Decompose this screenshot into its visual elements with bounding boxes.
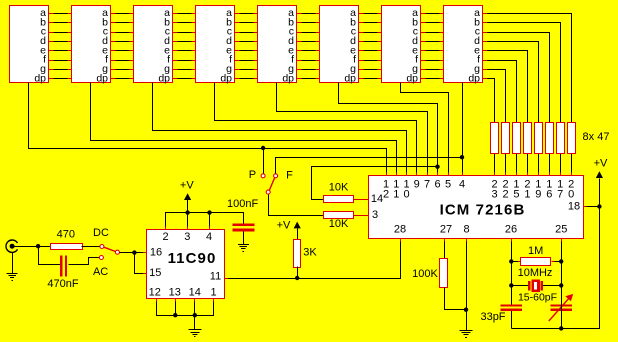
wire junction to R1 bbox=[38, 246, 50, 248]
wire 10K R2 to ICM pin 6 line bbox=[312, 167, 438, 200]
resistor R2 10K (pin14) bbox=[324, 196, 354, 203]
svg-text:16: 16 bbox=[150, 246, 162, 258]
svg-text:dp: dp bbox=[282, 72, 294, 84]
wire P contact to DISP1 digit wire bbox=[263, 148, 265, 174]
svg-text:10K: 10K bbox=[329, 218, 349, 230]
red stub pin15 bbox=[143, 273, 147, 275]
svg-text:9: 9 bbox=[414, 178, 420, 190]
junction pin8 / 100K bbox=[464, 308, 468, 312]
wire R2 to ICM pin 14 bbox=[353, 199, 368, 201]
switch S1 lever bbox=[104, 247, 116, 251]
svg-text:5: 5 bbox=[445, 178, 451, 190]
wire 1M right bbox=[551, 261, 561, 263]
junction input node bbox=[36, 244, 40, 248]
wire 1M left bbox=[511, 261, 521, 263]
svg-text:3: 3 bbox=[492, 188, 498, 200]
wire ICM pin 25 down bbox=[561, 239, 563, 305]
segment bus wires between DISP7 and DISP8 bbox=[420, 14, 443, 79]
svg-text:7: 7 bbox=[557, 188, 563, 200]
switch S2 lever bbox=[269, 178, 274, 191]
svg-text:3: 3 bbox=[184, 231, 190, 243]
junction gnd bus pin13 bbox=[173, 313, 177, 317]
junction 1M left bbox=[509, 259, 513, 263]
display DISP6 bbox=[320, 6, 359, 83]
resistor network RN1 8x 47 bbox=[491, 123, 576, 154]
wire R4 bottom bbox=[297, 267, 299, 278]
switch S2 common contact bbox=[266, 190, 270, 194]
segment bus wires between DISP4 and DISP5 bbox=[234, 14, 257, 79]
wire C1 to AC contact bbox=[69, 258, 100, 265]
svg-text:ICM 7216B: ICM 7216B bbox=[440, 202, 526, 219]
svg-text:14: 14 bbox=[371, 193, 383, 205]
svg-text:DC: DC bbox=[93, 227, 109, 239]
wire C3 bottom bbox=[511, 311, 513, 328]
display DISP5 segment pin labels a-dp bbox=[282, 7, 294, 84]
svg-text:1: 1 bbox=[393, 188, 399, 200]
svg-text:27: 27 bbox=[440, 224, 452, 236]
svg-text:11C90: 11C90 bbox=[168, 250, 217, 267]
svg-text:+V: +V bbox=[277, 219, 291, 231]
segment bus wires between DISP1 and DISP2 bbox=[48, 14, 71, 79]
wire S2 common to 10K R3 bbox=[269, 195, 324, 216]
display DISP2 bbox=[72, 6, 111, 83]
svg-text:3K: 3K bbox=[303, 246, 317, 258]
wire R5 to pin8 ground bbox=[445, 288, 467, 310]
+V arrow right bbox=[596, 171, 603, 178]
ICM digit pins 12 11 10 9 7 6 5 4 labels bbox=[383, 178, 465, 200]
display DISP3 bbox=[134, 6, 173, 83]
svg-text:5: 5 bbox=[513, 188, 519, 200]
svg-text:AC: AC bbox=[93, 266, 108, 278]
ground C2 bbox=[238, 231, 249, 251]
svg-text:4: 4 bbox=[459, 178, 465, 190]
svg-text:18: 18 bbox=[568, 201, 580, 213]
display DISP6 segment pin labels a-dp bbox=[344, 7, 356, 84]
wires resistor network to ICM segment pins bbox=[495, 154, 572, 175]
svg-text:6: 6 bbox=[546, 188, 552, 200]
svg-text:6: 6 bbox=[434, 178, 440, 190]
segment bus wires between DISP2 and DISP3 bbox=[110, 14, 133, 79]
svg-text:1M: 1M bbox=[528, 245, 543, 257]
capacitor C3 33pF bbox=[500, 304, 522, 311]
junction F wire on pin 4 line bbox=[460, 155, 464, 159]
svg-text:2: 2 bbox=[162, 231, 168, 243]
display DISP3 segment pin labels a-dp bbox=[158, 7, 170, 84]
segment bus wires between DISP5 and DISP6 bbox=[296, 14, 319, 79]
junction crystal left bbox=[509, 283, 513, 287]
svg-text:15-60pF: 15-60pF bbox=[518, 292, 557, 304]
svg-text:3: 3 bbox=[372, 209, 378, 221]
svg-text:12: 12 bbox=[149, 286, 161, 298]
svg-text:100K: 100K bbox=[412, 268, 438, 280]
segment bus wires between DISP6 and DISP7 bbox=[358, 14, 381, 79]
svg-text:+V: +V bbox=[594, 158, 608, 170]
wire C4 top bbox=[561, 304, 563, 311]
junction pin18 +V bbox=[597, 204, 601, 208]
resistor R1 470 bbox=[51, 244, 83, 250]
IC U2 11C90 body bbox=[147, 230, 225, 299]
display DISP8 segment pin labels a-dp bbox=[468, 7, 480, 84]
switch S2 contact P bbox=[261, 174, 265, 178]
svg-text:8: 8 bbox=[463, 224, 469, 236]
wire ICM pin 27 to R5 bbox=[444, 239, 446, 259]
svg-text:9: 9 bbox=[535, 188, 541, 200]
junction gnd bus pin14 bbox=[193, 313, 197, 317]
svg-text:14: 14 bbox=[189, 286, 201, 298]
wires 11C90 pins 12,13,14,1 to ground bus bbox=[157, 299, 214, 316]
svg-text:8x 47: 8x 47 bbox=[583, 131, 610, 143]
svg-text:100nF: 100nF bbox=[227, 198, 258, 210]
display DISP4 bbox=[196, 6, 235, 83]
wires 11C90 pins 2,3,4 to +V bus bbox=[166, 213, 244, 230]
display DISP8 bbox=[444, 6, 483, 83]
switch S1 contact AC bbox=[99, 256, 103, 260]
ground ICM pin 8 bbox=[460, 330, 473, 332]
svg-text:11: 11 bbox=[210, 271, 221, 283]
svg-text:28: 28 bbox=[394, 224, 406, 236]
junction on DISP1 digit wire above P bbox=[261, 146, 265, 150]
+V arrow above R4 bbox=[294, 222, 301, 229]
junction bus pin4 bbox=[207, 210, 211, 214]
svg-text:dp: dp bbox=[96, 72, 108, 84]
svg-text:+V: +V bbox=[180, 179, 194, 191]
resistor R3 10K (pin3) bbox=[324, 212, 354, 219]
capacitor C1 470nF bbox=[60, 256, 67, 277]
svg-text:13: 13 bbox=[169, 286, 181, 298]
wire ICM pin 26 down bbox=[511, 239, 513, 305]
input connector J1 bbox=[6, 240, 18, 252]
wire C4 bottom bbox=[561, 311, 563, 328]
ICM segment pins 23 22 15 21 19 16 17 20 labels bbox=[492, 178, 575, 200]
display DISP4 segment pin labels a-dp bbox=[220, 7, 232, 84]
wire ICM pin 8 down bbox=[466, 239, 468, 330]
IC U1 ICM 7216B body bbox=[369, 176, 584, 239]
svg-text:2: 2 bbox=[383, 188, 389, 200]
svg-text:0: 0 bbox=[403, 188, 409, 200]
trimmer capacitor C4 15-60pF bbox=[549, 294, 573, 321]
wire to 11C90 pin 15 bbox=[135, 253, 147, 274]
junction bus pin3 bbox=[185, 210, 189, 214]
ground J1 bbox=[7, 252, 18, 280]
wire 11C90 pin 11 to ICM pin 28 bbox=[225, 239, 401, 279]
resistor R6 1M bbox=[521, 258, 551, 266]
svg-text:10K: 10K bbox=[329, 181, 349, 193]
segment wires from DISP8 to resistor network bbox=[482, 14, 572, 123]
junction crystal right bbox=[559, 283, 563, 287]
wire R4 top to +V bbox=[297, 228, 299, 239]
wire R3 to ICM pin 3 bbox=[353, 215, 368, 217]
svg-text:dp: dp bbox=[344, 72, 356, 84]
switch S2 contact F bbox=[274, 174, 278, 178]
svg-text:dp: dp bbox=[406, 72, 418, 84]
+V arrow above 11C90 pin 3 bbox=[184, 193, 191, 212]
junction S1 wire bbox=[132, 250, 136, 254]
switch S1 contact DC bbox=[100, 245, 104, 249]
svg-text:7: 7 bbox=[424, 178, 430, 190]
svg-text:dp: dp bbox=[158, 72, 170, 84]
segment bus wires between DISP3 and DISP4 bbox=[172, 14, 195, 79]
wire R1 to DC contact bbox=[82, 246, 100, 248]
crystal X1 10MHz bbox=[511, 280, 561, 292]
svg-text:dp: dp bbox=[220, 72, 232, 84]
svg-text:2: 2 bbox=[502, 188, 508, 200]
svg-text:4: 4 bbox=[206, 231, 212, 243]
wire S1 common to 11C90 pin16 bbox=[119, 252, 146, 254]
resistor R5 100K bbox=[440, 259, 448, 288]
switch S1 common contact bbox=[115, 250, 119, 254]
svg-text:15: 15 bbox=[149, 267, 161, 279]
wire ICM pin 18 to +V bbox=[583, 206, 599, 208]
ground 11C90 bbox=[188, 315, 201, 336]
svg-text:dp: dp bbox=[468, 72, 480, 84]
svg-text:470nF: 470nF bbox=[47, 278, 78, 290]
resistor R4 3K bbox=[294, 240, 301, 268]
display DISP1 bbox=[10, 6, 49, 83]
digit drive wire DISP8 to ICM pin 4 bbox=[462, 83, 464, 176]
svg-text:F: F bbox=[286, 169, 293, 181]
display DISP1 segment pin labels a-dp bbox=[34, 7, 46, 84]
junction rail C4 bbox=[559, 326, 563, 330]
junction 1M right bbox=[559, 259, 563, 263]
svg-text:0: 0 bbox=[568, 188, 574, 200]
junction 3K on pin28 wire bbox=[295, 276, 299, 280]
red stub pin16 bbox=[143, 252, 147, 254]
digit drive wires DISP1-7 to ICM pins 12,11,10,9,7,6,5 bbox=[29, 83, 449, 176]
svg-text:33pF: 33pF bbox=[480, 311, 505, 323]
svg-text:P: P bbox=[249, 169, 256, 181]
svg-text:dp: dp bbox=[34, 72, 46, 84]
capacitor C2 100nF bbox=[233, 223, 255, 231]
display DISP2 segment pin labels a-dp bbox=[96, 7, 108, 84]
display DISP7 bbox=[382, 6, 421, 83]
wire J1 to junction bbox=[15, 246, 38, 248]
wire junction down to C1 bbox=[39, 247, 61, 265]
svg-text:1: 1 bbox=[210, 286, 216, 298]
svg-text:1: 1 bbox=[524, 188, 530, 200]
svg-text:10MHz: 10MHz bbox=[518, 267, 553, 279]
junction 10K wire on pin 6 line bbox=[435, 165, 439, 169]
svg-text:25: 25 bbox=[555, 224, 567, 236]
display DISP5 bbox=[258, 6, 297, 83]
svg-text:470: 470 bbox=[57, 228, 75, 240]
wire F contact to ICM pin 4 line bbox=[276, 158, 463, 174]
svg-text:26: 26 bbox=[505, 224, 517, 236]
bottom rail to +V bbox=[512, 179, 600, 329]
display DISP7 segment pin labels a-dp bbox=[406, 7, 418, 84]
